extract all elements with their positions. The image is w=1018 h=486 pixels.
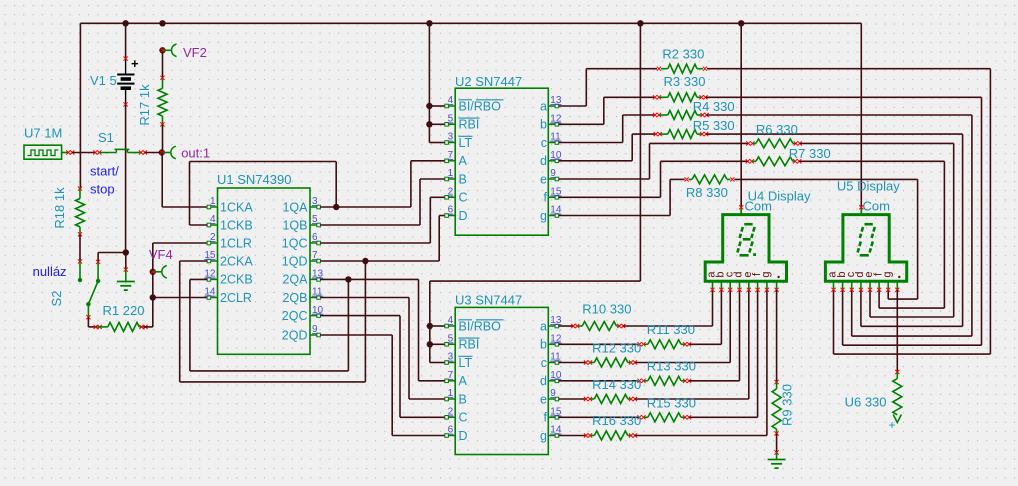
- junction out node: [159, 149, 165, 155]
- decoder U3 SN7447: [445, 293, 562, 455]
- svg-text:RBI: RBI: [459, 338, 480, 352]
- svg-text:LT: LT: [459, 136, 473, 150]
- resistor R7 330: [746, 157, 802, 166]
- svg-text:2QD: 2QD: [282, 328, 308, 342]
- label R8 330: [686, 185, 728, 200]
- junction VCC rail at V1: [122, 20, 128, 26]
- svg-text:d: d: [540, 374, 547, 388]
- svg-text:R1 220: R1 220: [103, 303, 145, 318]
- wire U2 d to R5: [559, 134, 656, 161]
- label R16 330: [592, 413, 641, 428]
- svg-text:VF2: VF2: [183, 45, 207, 60]
- label R3 330: [664, 74, 706, 89]
- resistor R1 220: [94, 322, 148, 331]
- label R15 330: [647, 396, 696, 411]
- resistor R10 330: [571, 322, 625, 331]
- probe out:1: [162, 146, 176, 159]
- label R5 330: [693, 118, 735, 133]
- wire R4 to U5 pin c: [707, 115, 972, 336]
- svg-text:c: c: [541, 356, 547, 370]
- svg-text:R6 330: R6 330: [756, 122, 798, 137]
- wire R9 to ground: [775, 434, 779, 460]
- label start/stop: [90, 164, 119, 197]
- label U4 Display: [748, 188, 811, 203]
- battery V1 5V: [117, 56, 139, 107]
- svg-text:R17 1k: R17 1k: [137, 84, 152, 126]
- wire U3 e to R14: [559, 398, 586, 400]
- resistor R4 330: [653, 111, 709, 120]
- decoder U2 SN7447: [445, 74, 562, 235]
- junction U2 BI/RBO: [426, 103, 432, 109]
- wire net 1QB to U2 B: [320, 179, 445, 225]
- junction U2 RBI: [426, 121, 432, 127]
- svg-text:B: B: [459, 392, 467, 406]
- probe VF2: [159, 44, 176, 57]
- wire clear column to U1 1CLR: [153, 243, 208, 298]
- wire R7 to U5 pin f: [799, 161, 944, 308]
- label R4 330: [693, 99, 735, 114]
- wire net 1QA to U2 A and 1CKB: [190, 161, 445, 225]
- wire R8 to U5 pin g: [734, 179, 917, 299]
- junction 1QD node: [362, 258, 368, 264]
- svg-text:nulláz: nulláz: [33, 264, 67, 279]
- svg-text:2QB: 2QB: [282, 291, 307, 305]
- resistor R17 1k: [158, 76, 167, 127]
- svg-text:R2 330: R2 330: [662, 47, 704, 62]
- svg-text:d: d: [540, 154, 547, 168]
- wire U3 d to R13: [559, 380, 640, 382]
- clock source U7 1M: [24, 145, 74, 159]
- svg-text:2QC: 2QC: [282, 309, 308, 323]
- svg-text:1QB: 1QB: [282, 218, 307, 232]
- label VF2: [183, 45, 207, 60]
- svg-text:1QA: 1QA: [282, 200, 308, 214]
- wire U2 g to R8: [559, 179, 685, 215]
- wire R12 to U4 pin c: [635, 290, 730, 363]
- label R18 1k: [52, 187, 67, 229]
- svg-text:U1 SN74390: U1 SN74390: [217, 172, 291, 187]
- counter U1 SN74390: [204, 172, 323, 354]
- label S1: [98, 130, 114, 145]
- wire U5 dp to U6: [896, 290, 898, 372]
- wire R15 to U4 pin f: [689, 290, 758, 417]
- junction VCC rail at U2 column: [426, 20, 432, 26]
- ground below R9: [768, 460, 786, 469]
- svg-text:RBI: RBI: [459, 118, 480, 132]
- wire VCC to U2 blanking inputs: [429, 23, 445, 142]
- wire R13 to U4 pin d: [689, 290, 739, 381]
- wire U3 a to R10: [559, 325, 574, 327]
- svg-text:start/: start/: [90, 164, 119, 179]
- svg-text:V1 5: V1 5: [90, 73, 117, 88]
- wire U2 c to R4: [559, 115, 655, 143]
- label U5 Com: [863, 199, 890, 214]
- svg-text:g: g: [881, 271, 893, 277]
- resistor R13 330: [637, 376, 691, 385]
- svg-text:C: C: [459, 411, 468, 425]
- switch S2 nullaz: [86, 260, 100, 320]
- svg-text:b: b: [540, 338, 547, 352]
- wire R17 to out node: [162, 124, 164, 152]
- label U5 Display: [837, 179, 900, 194]
- svg-text:2CKA: 2CKA: [220, 254, 253, 268]
- wire U2 b to R3: [559, 97, 655, 124]
- seven-segment display U5: [825, 205, 906, 292]
- resistor R5 330: [654, 130, 709, 139]
- label R11 330: [647, 322, 695, 337]
- ground near S2: [117, 282, 135, 291]
- svg-text:U6 330: U6 330: [845, 395, 887, 410]
- wire S2 to R1: [88, 317, 97, 327]
- wire U2 f to R7: [559, 161, 748, 197]
- resistor R15 330: [637, 413, 691, 422]
- wire VCC to U5 Com: [860, 23, 862, 214]
- svg-text:U7 1M: U7 1M: [24, 126, 62, 141]
- wire R6 to U5 pin e: [800, 143, 954, 317]
- wire R18 to S2 throw: [78, 234, 82, 282]
- svg-text:R12 330: R12 330: [592, 341, 641, 356]
- label R6 330: [756, 122, 798, 137]
- svg-text:R13 330: R13 330: [647, 359, 696, 374]
- wire R1 to clear column: [144, 298, 153, 327]
- wire VCC top rail: [80, 23, 861, 188]
- wire net 2QC to U3 C: [320, 316, 445, 418]
- label R7 330: [789, 146, 831, 161]
- svg-text:C: C: [459, 191, 468, 205]
- label V1 5: [90, 73, 117, 88]
- wire V1 positive lead: [125, 23, 127, 58]
- seven-segment display U4: [705, 205, 786, 292]
- svg-text:a: a: [540, 99, 547, 113]
- wire U2 e to R6: [559, 143, 749, 179]
- svg-text:R10 330: R10 330: [582, 302, 631, 317]
- wire R5 to U5 pin d: [706, 134, 963, 326]
- svg-text:BI/RBO: BI/RBO: [459, 319, 502, 333]
- svg-text:1QD: 1QD: [282, 254, 308, 268]
- junction VCC rail at U4 Com column: [738, 20, 744, 26]
- svg-text:1CLR: 1CLR: [220, 236, 252, 250]
- wire net 2QD to U3 D: [320, 335, 445, 436]
- svg-text:R8 330: R8 330: [686, 185, 728, 200]
- svg-text:1CKB: 1CKB: [220, 218, 253, 232]
- svg-text:U5 Display: U5 Display: [837, 179, 900, 194]
- resistor R18 1k: [76, 187, 85, 237]
- junction battery negative node: [123, 249, 129, 255]
- svg-text:A: A: [459, 154, 468, 168]
- svg-text:stop: stop: [90, 182, 115, 197]
- wire U4 dp to R9: [776, 290, 778, 382]
- label R12 330: [592, 341, 641, 356]
- resistor R8 330: [685, 175, 735, 184]
- wire net 1QD to U2 D and 2CKA: [180, 216, 445, 382]
- svg-text:B: B: [459, 172, 467, 186]
- wire out node to U1 1CKA: [162, 153, 207, 208]
- svg-text:R16 330: R16 330: [592, 413, 641, 428]
- svg-text:g: g: [540, 429, 547, 443]
- label nullaz: [33, 264, 67, 279]
- svg-text:1CKA: 1CKA: [220, 200, 253, 214]
- label VF4: [149, 247, 173, 262]
- svg-text:R3 330: R3 330: [664, 74, 706, 89]
- wire VCC to U4 Com: [740, 23, 742, 214]
- resistor R11 330: [637, 340, 691, 349]
- label R10 330: [582, 302, 631, 317]
- label U6 330: [845, 395, 887, 410]
- svg-text:Com: Com: [745, 199, 772, 214]
- probe VF4: [150, 266, 167, 279]
- label U4 Com: [745, 199, 772, 214]
- svg-text:2QA: 2QA: [282, 273, 308, 287]
- resistor R6 330: [746, 139, 802, 148]
- svg-text:f: f: [544, 411, 548, 425]
- wire junction to ground: [124, 253, 128, 282]
- svg-text:LT: LT: [459, 356, 473, 370]
- svg-text:2CKB: 2CKB: [220, 273, 253, 287]
- svg-text:+: +: [889, 418, 896, 432]
- junction VCC rail at U3 column: [637, 20, 643, 26]
- junction U3 RBI: [427, 341, 433, 347]
- svg-text:R11 330: R11 330: [647, 322, 695, 337]
- label R2 330: [662, 47, 704, 62]
- label U7 1M: [24, 126, 62, 141]
- svg-text:R5 330: R5 330: [693, 118, 735, 133]
- wire U7 to S1: [72, 152, 96, 154]
- wire net 2QA to U3 A and 2CKB: [190, 279, 445, 380]
- svg-text:Com: Com: [863, 199, 890, 214]
- svg-text:R18 1k: R18 1k: [52, 187, 67, 229]
- svg-text:S2: S2: [49, 291, 64, 307]
- svg-text:b: b: [540, 118, 547, 132]
- label R13 330: [647, 359, 696, 374]
- wire R16 to U4 pin g: [635, 290, 767, 436]
- svg-text:1QC: 1QC: [282, 236, 308, 250]
- wire R10 to U4 pin a: [623, 290, 712, 326]
- svg-text:e: e: [540, 392, 547, 406]
- svg-text:A: A: [459, 374, 468, 388]
- wire R11 to U4 pin b: [689, 290, 721, 344]
- svg-text:U2 SN7447: U2 SN7447: [455, 74, 522, 89]
- svg-text:R9 330: R9 330: [780, 384, 795, 426]
- svg-text:f: f: [544, 191, 548, 205]
- junction VCC rail at R17: [159, 20, 165, 26]
- resistor R3 330: [653, 93, 708, 102]
- wire U3 g to R16: [559, 435, 586, 437]
- wire V1 negative to ground junction: [125, 104, 127, 252]
- svg-text:c: c: [541, 136, 547, 150]
- junction 2QA node: [345, 276, 351, 282]
- label R17 1k: [137, 84, 152, 126]
- svg-text:D: D: [459, 429, 468, 443]
- resistor U6 330: [893, 370, 902, 423]
- svg-text:+: +: [131, 56, 139, 71]
- switch S1 start/stop: [93, 149, 147, 155]
- svg-text:BI/RBO: BI/RBO: [459, 99, 502, 113]
- svg-text:g: g: [760, 271, 772, 277]
- wire clear column to U1 2CLR: [153, 297, 208, 299]
- wire U3 b to R11: [559, 343, 640, 345]
- svg-text:out:1: out:1: [181, 146, 210, 161]
- resistor R2 330: [657, 64, 707, 73]
- svg-text:D: D: [459, 209, 468, 223]
- label U6 plus: [889, 418, 896, 432]
- label out:1: [181, 146, 210, 161]
- label R1 220: [103, 303, 145, 318]
- svg-text:R15 330: R15 330: [647, 396, 696, 411]
- resistor R12 330: [584, 358, 637, 367]
- svg-text:VF4: VF4: [149, 247, 173, 262]
- svg-text:a: a: [540, 319, 547, 333]
- wire R2 to U5 pin a: [707, 69, 990, 354]
- wire VCC to R17: [162, 50, 164, 78]
- label R14 330: [592, 377, 641, 392]
- wire U3 f to R15: [559, 416, 640, 418]
- label S2: [49, 291, 64, 307]
- label R9 330: [780, 384, 795, 426]
- junction 1QA node: [333, 204, 339, 210]
- wire S1 to out node: [145, 152, 162, 154]
- resistor R14 330: [584, 395, 637, 404]
- svg-text:2CLR: 2CLR: [220, 291, 252, 305]
- svg-text:R7 330: R7 330: [789, 146, 831, 161]
- wire R3 to U5 pin b: [706, 97, 982, 345]
- wire R14 to U4 pin e: [635, 290, 749, 399]
- svg-text:R14 330: R14 330: [592, 377, 641, 392]
- junction clear column 2CLR: [150, 294, 156, 300]
- junction U3 BI/RBO: [427, 323, 433, 329]
- wire U2 a to R2: [559, 69, 657, 106]
- resistor R16 330: [584, 431, 637, 440]
- wire net 1QC to U2 C: [320, 197, 445, 243]
- svg-text:R4 330: R4 330: [693, 99, 735, 114]
- svg-text:U3 SN7447: U3 SN7447: [455, 293, 522, 308]
- wire U3 c to R12: [559, 362, 586, 364]
- wire VCC to U3 blanking inputs: [430, 23, 641, 362]
- svg-text:S1: S1: [98, 130, 114, 145]
- wire net 2QB to U3 B: [320, 298, 445, 400]
- svg-text:e: e: [540, 172, 547, 186]
- svg-text:g: g: [540, 209, 547, 223]
- resistor R9 330: [772, 380, 781, 436]
- wire junction to S2 pole: [98, 253, 126, 262]
